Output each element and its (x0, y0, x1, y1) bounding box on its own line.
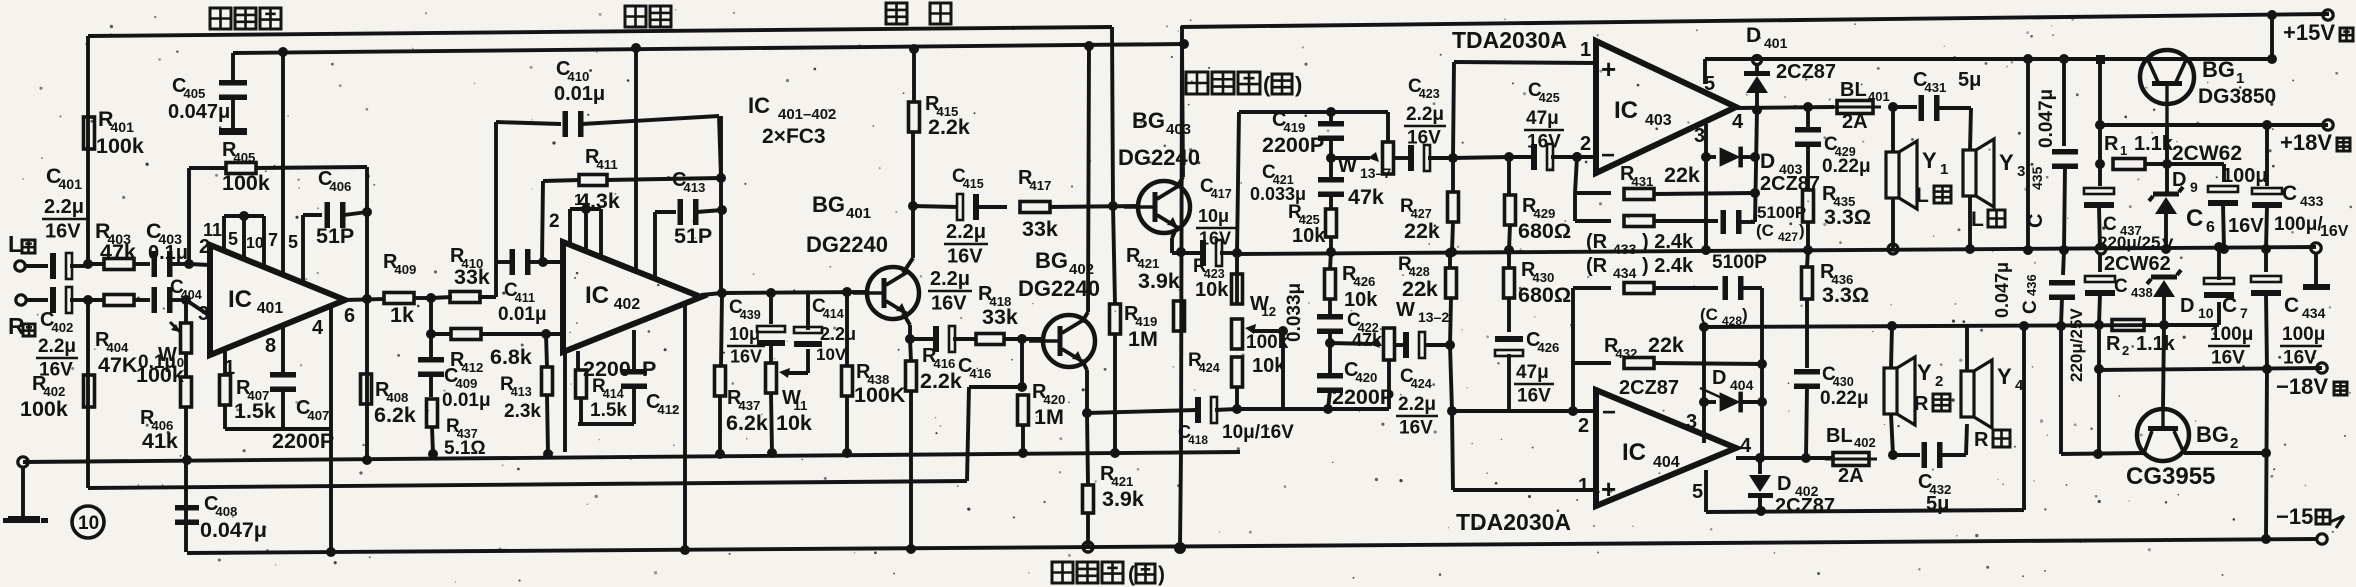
wire C6 link (2167, 162, 2224, 166)
svg-text:414: 414 (603, 387, 624, 401)
label xiangjiaqi you bottom (1052, 562, 1073, 583)
svg-text:3.9k: 3.9k (1102, 487, 1144, 511)
wire bottom rail (187, 539, 2316, 553)
svg-text:Y: Y (1997, 364, 2012, 389)
resistor R433 (1624, 216, 1654, 227)
svg-text:16V: 16V (1517, 385, 1551, 406)
wire BG1 base down (2165, 125, 2169, 192)
wire box edge to bottom (1180, 452, 1181, 548)
svg-text:2200P: 2200P (1332, 385, 1394, 409)
transistor BG2 (2137, 409, 2189, 461)
svg-text:R: R (2106, 333, 2121, 355)
svg-text:D: D (1746, 24, 1761, 47)
wire C435 bottom (2064, 167, 2065, 250)
node C411 out (538, 257, 548, 267)
diode D402 (1758, 458, 1762, 474)
terminal +15V (2267, 10, 2277, 20)
svg-text:401: 401 (257, 300, 284, 317)
wire lower box right (2022, 326, 2026, 510)
terminal -15 (2317, 534, 2327, 544)
svg-text:417: 417 (1029, 178, 1051, 193)
capacitor C436 (2049, 280, 2075, 286)
node R435 bottom (1803, 245, 1813, 255)
svg-text:): ) (1158, 563, 1165, 586)
svg-text:BG: BG (1035, 248, 1068, 273)
wire D401 vertical (1755, 110, 1757, 222)
svg-text:1.1k: 1.1k (2134, 133, 2174, 155)
wire pin4 drop (329, 306, 333, 552)
node R421 lower bottom (1083, 542, 1093, 552)
resistor R419 (1110, 304, 1121, 334)
resistor R418 (976, 334, 1004, 345)
resistor R421 lower (1087, 413, 1088, 484)
wire C410 right drop (719, 116, 721, 178)
svg-text:16V: 16V (730, 347, 762, 367)
capacitor C406 (325, 202, 331, 228)
speaker Y2 (1884, 368, 1897, 414)
capacitor C407 line (281, 325, 285, 374)
svg-text:C: C (2284, 294, 2299, 317)
svg-text:433: 433 (2300, 193, 2324, 209)
capacitor C402 (50, 287, 56, 313)
capacitor C7 (2204, 278, 2234, 284)
capacitor C429 (1806, 107, 1810, 130)
speaker Y1 (1886, 152, 1899, 198)
node pin2 (1572, 152, 1582, 162)
wire Y1 bottom (1891, 198, 1895, 249)
resistor R2 (2112, 320, 2144, 331)
svg-text:438: 438 (2131, 285, 2153, 300)
wire R405 left drop (187, 168, 191, 264)
svg-text:411: 411 (596, 157, 617, 172)
svg-text:100k: 100k (96, 134, 144, 158)
node mixer L in (1232, 248, 1242, 258)
resistor R431 (1624, 189, 1654, 200)
svg-text:W: W (1396, 299, 1415, 321)
wire IC404 output (1736, 456, 1833, 460)
svg-text:100μ: 100μ (2210, 324, 2253, 345)
wire node to R429 (1453, 157, 1509, 158)
svg-text:436: 436 (2024, 274, 2039, 296)
svg-text:100k: 100k (222, 171, 270, 195)
resistor R405 (189, 166, 227, 170)
node IC403 out (1752, 105, 1762, 115)
svg-text:IC: IC (228, 286, 252, 313)
resistor R414 (576, 370, 587, 398)
svg-text:5: 5 (288, 232, 298, 252)
wire second rail (233, 44, 1184, 53)
svg-text:3.9k: 3.9k (1138, 269, 1180, 293)
svg-text:L: L (1971, 208, 1984, 231)
svg-text:1.5k: 1.5k (234, 399, 276, 423)
node railB junction (278, 47, 288, 57)
svg-text:13–2: 13–2 (1418, 309, 1449, 325)
node R409-R410 (426, 293, 436, 303)
svg-text:0.01μ: 0.01μ (498, 304, 547, 325)
svg-text:220μ/25V: 220μ/25V (2067, 308, 2086, 382)
svg-text:10k: 10k (1195, 279, 1229, 301)
capacitor C6 (2208, 186, 2238, 192)
wire Y2 top (1891, 326, 1892, 368)
node emitter crossing (1176, 247, 1186, 257)
svg-text:10: 10 (2198, 305, 2214, 321)
resistor R407 (220, 375, 231, 405)
svg-text:R: R (1974, 429, 1989, 451)
node BG402 emitter junction (1082, 408, 1092, 418)
wire pin3 ground drop (1704, 124, 1708, 250)
speaker Y3 (1963, 150, 1976, 196)
wire Y4 bottom (1966, 424, 1967, 455)
wire out to BG401 base (722, 292, 867, 293)
fuse BL402 (1833, 453, 1869, 466)
svg-text:) 2.4k: ) 2.4k (1642, 231, 1694, 253)
capacitor C414 (794, 327, 822, 333)
terminal mid ground (2096, 244, 2106, 254)
capacitor C413 (678, 199, 684, 225)
pot W13-2 (1384, 328, 1395, 360)
node C419-C421 (1326, 153, 1336, 163)
svg-text:C: C (2282, 182, 2297, 205)
node -18 dots (2094, 364, 2104, 374)
capacitor C428 (1723, 276, 1729, 300)
pot W10 (181, 323, 192, 353)
svg-text:L: L (1916, 184, 1929, 207)
svg-text:16V: 16V (2283, 347, 2317, 368)
svg-text:415: 415 (963, 177, 984, 191)
svg-text:L: L (8, 231, 22, 257)
resistor R438 (845, 292, 849, 366)
svg-text:2.2k: 2.2k (928, 115, 970, 139)
svg-text:1: 1 (1940, 161, 1948, 178)
node rail250 dots (2161, 244, 2171, 254)
svg-text:9: 9 (2190, 179, 2198, 195)
node BG401 emitter (905, 334, 915, 344)
svg-text:2CW62: 2CW62 (2104, 253, 2171, 275)
capacitor C419 (1329, 112, 1333, 122)
svg-text:0.033μ: 0.033μ (1284, 283, 1305, 342)
resistor R413 (546, 334, 547, 367)
resistor R402 line (86, 300, 90, 488)
zener D10 (2151, 275, 2177, 280)
svg-text:16V: 16V (1199, 229, 1231, 249)
svg-text:100K: 100K (854, 383, 906, 407)
svg-text:47μ: 47μ (1526, 108, 1559, 129)
node C429 top (1803, 102, 1813, 112)
svg-text:1: 1 (2120, 143, 2127, 158)
svg-text:10: 10 (78, 513, 99, 534)
resistor R401 vertical line (86, 36, 90, 264)
svg-text:424: 424 (1411, 377, 1432, 391)
op-amp IC404 (1596, 390, 1736, 506)
svg-text:100k: 100k (20, 397, 68, 421)
svg-text:−: − (1602, 399, 1616, 426)
svg-text:5μ: 5μ (1926, 493, 1949, 515)
svg-text:2: 2 (2122, 343, 2129, 358)
svg-text:2: 2 (1580, 133, 1591, 155)
wire chassis rail (23, 452, 1240, 462)
capacitor C439 (757, 326, 785, 332)
transistor BG402 (1043, 315, 1095, 367)
capacitor C433 (2265, 125, 2269, 186)
svg-text:3.3Ω: 3.3Ω (1824, 205, 1871, 229)
svg-text:6.8k: 6.8k (490, 345, 532, 369)
svg-text:404: 404 (1730, 377, 1754, 393)
svg-text:5.1Ω: 5.1Ω (444, 438, 486, 459)
svg-text:33k: 33k (1022, 217, 1058, 241)
node box edge chassis (1110, 448, 1120, 458)
svg-text:7: 7 (2240, 305, 2248, 321)
resistor R423 (1235, 253, 1239, 304)
wire lower feedback rail (88, 481, 967, 488)
pot W11 (769, 344, 773, 362)
wire BG402 collector (1082, 312, 1088, 322)
svg-text:Y: Y (1917, 360, 1932, 385)
svg-text:0.047μ: 0.047μ (200, 518, 267, 542)
svg-text:BG: BG (2202, 57, 2235, 82)
svg-text:D: D (1760, 150, 1775, 173)
svg-text:16V: 16V (2211, 347, 2245, 368)
diode D404 (1704, 400, 1716, 404)
svg-text:1k: 1k (390, 303, 414, 327)
capacitor C434 (2264, 247, 2268, 272)
svg-text:0.01μ: 0.01μ (442, 390, 491, 411)
node R429 top (1504, 152, 1514, 162)
capacitor C423 (1394, 156, 1408, 160)
svg-text:C: C (2186, 205, 2203, 232)
resistor R410 (431, 297, 452, 298)
svg-text:DG3850: DG3850 (2198, 85, 2276, 108)
svg-text:407: 407 (307, 408, 329, 423)
svg-text:D: D (1712, 367, 1726, 389)
svg-text:401: 401 (846, 205, 871, 222)
svg-text:2: 2 (1578, 415, 1589, 437)
svg-text:(R: (R (1586, 255, 1608, 277)
wire wiper W13-7 (1331, 156, 1370, 160)
node IC404 out (1755, 453, 1765, 463)
resistor R429 (1507, 157, 1511, 194)
capacitor C417 (1200, 240, 1206, 266)
svg-text:3: 3 (1686, 411, 1697, 433)
wire W11 wiper (788, 371, 808, 375)
capacitor C407 (270, 372, 296, 378)
svg-text:2200P: 2200P (272, 429, 334, 453)
svg-text:10k: 10k (776, 411, 812, 435)
wire C437 line (2098, 59, 2102, 125)
capacitor C405 top lead (231, 53, 235, 80)
node R438 top (842, 287, 852, 297)
svg-text:1: 1 (574, 192, 583, 209)
node R432 right (1757, 359, 1767, 369)
capacitor C418 (1160, 410, 1196, 411)
svg-text:0.22μ: 0.22μ (1820, 388, 1869, 409)
node D404 cathode (1757, 397, 1767, 407)
capacitor C426 (1495, 336, 1523, 342)
svg-text:1: 1 (1580, 39, 1591, 61)
wire out to R409 (345, 299, 385, 300)
pot W10 line (184, 300, 188, 323)
svg-text:5100P: 5100P (1757, 203, 1806, 222)
svg-text:413: 413 (683, 180, 705, 195)
wire BG403 collector (1177, 177, 1183, 187)
diode D403 (1706, 155, 1716, 159)
wire R414-C412 bus (578, 422, 634, 426)
svg-text:12: 12 (1261, 304, 1276, 319)
capacitor C430 (1794, 369, 1820, 375)
resistor R408 line (365, 299, 369, 460)
transistor BG401 (867, 267, 919, 319)
wire -18V rail (2095, 368, 2322, 370)
wire Y2 bottom (1891, 414, 1893, 455)
wire base feedback (969, 385, 1022, 389)
svg-text:100μ: 100μ (2282, 324, 2325, 345)
wire IC404 pin5 stub (1704, 470, 1708, 512)
svg-text:IC: IC (1614, 97, 1638, 124)
svg-text:430: 430 (1833, 375, 1854, 389)
capacitor C405 (219, 80, 247, 86)
svg-text:10: 10 (246, 235, 264, 252)
svg-text:432: 432 (1615, 346, 1637, 361)
node BG402 base (1017, 334, 1027, 344)
wire IC403 output (1736, 107, 1834, 108)
svg-text:4: 4 (1740, 435, 1752, 457)
wire D404 to output (1760, 364, 1764, 458)
svg-text:100μ/: 100μ/ (2274, 214, 2323, 235)
svg-text:2×FC3: 2×FC3 (762, 125, 826, 148)
svg-text:TDA2030A: TDA2030A (1452, 27, 1567, 53)
node rail B end (1179, 39, 1189, 49)
svg-text:2.2μ: 2.2μ (930, 268, 970, 290)
svg-text:C: C (2222, 294, 2237, 317)
svg-text:16V: 16V (947, 245, 983, 267)
wire +15V rail (1181, 14, 2329, 27)
node L junction (83, 259, 93, 269)
svg-text:2.2μ: 2.2μ (1398, 394, 1436, 415)
resistor R436 (1807, 250, 1808, 267)
node Y1 bottom (1888, 244, 1898, 254)
wire IC402 pin7 drop (634, 48, 638, 270)
svg-text:434: 434 (1613, 265, 1637, 281)
capacitor C412 (621, 369, 647, 375)
wire IC402 out vertical (719, 116, 723, 293)
label yanshi (625, 6, 646, 27)
capacitor C439 drop (766, 288, 776, 298)
svg-text:DG2240: DG2240 (806, 232, 888, 257)
capacitor C438 (2098, 253, 2102, 272)
svg-text:D: D (1777, 473, 1791, 495)
svg-text:IC: IC (1622, 439, 1646, 466)
node D404 anode (1699, 397, 1709, 407)
svg-text:3.3Ω: 3.3Ω (1822, 283, 1869, 307)
zener D9 (2153, 192, 2179, 197)
svg-text:100k: 100k (136, 363, 184, 387)
wire wiper W13-2 (1330, 343, 1372, 344)
resistor R420 (1018, 395, 1029, 425)
svg-text:5: 5 (1692, 481, 1703, 503)
svg-text:403: 403 (1645, 112, 1672, 129)
node IC401 out (362, 294, 372, 304)
wire R433 wire (1573, 193, 1577, 221)
box left edge (1181, 26, 1182, 452)
capacitor C416 (910, 337, 934, 341)
capacitor C410 (496, 122, 561, 124)
wire top rail (88, 27, 1112, 36)
resistor R417 (1020, 202, 1050, 213)
wire lower box bottom (1706, 510, 2024, 512)
svg-text:1M: 1M (1128, 327, 1158, 351)
svg-text:47μ: 47μ (1516, 362, 1549, 383)
svg-text:C: C (2114, 276, 2128, 297)
svg-text:2.2μ: 2.2μ (1406, 104, 1444, 125)
svg-text:0.1μ: 0.1μ (148, 242, 188, 264)
svg-text:406: 406 (329, 179, 351, 194)
svg-text:11: 11 (203, 220, 222, 240)
svg-text:16V: 16V (1527, 131, 1561, 152)
svg-text:412: 412 (461, 360, 483, 375)
svg-text:5μ: 5μ (1958, 69, 1981, 91)
resistor R428 (1448, 253, 1452, 267)
svg-text:51P: 51P (674, 224, 712, 248)
svg-text:−18V: −18V (2276, 374, 2328, 399)
wire +18V rail (2100, 123, 2328, 127)
svg-text:(R: (R (1586, 231, 1608, 253)
wire D401 top rail (1705, 57, 2272, 61)
svg-text:2: 2 (2230, 435, 2238, 452)
capacitor C411 (510, 249, 516, 275)
resistor R404 (88, 298, 105, 302)
svg-text:413: 413 (511, 385, 532, 399)
svg-text:4: 4 (2015, 377, 2024, 394)
pot W13-7 (1386, 112, 1390, 142)
svg-text:423: 423 (1419, 87, 1440, 101)
node R406 chassis (182, 455, 192, 465)
svg-text:10k: 10k (1344, 289, 1378, 311)
wire W12 wiper (1252, 329, 1283, 333)
node D403 anode (1701, 152, 1711, 162)
svg-text:409: 409 (394, 262, 416, 277)
svg-text:408: 408 (215, 504, 237, 519)
svg-text:401: 401 (58, 177, 82, 193)
terminal L input (15, 261, 25, 271)
pot W12 (1232, 319, 1243, 349)
node C430 bottom (1801, 453, 1811, 463)
wire emitter to C418 (1087, 411, 1160, 413)
svg-text:22k: 22k (1402, 277, 1438, 301)
svg-text:2.2μ: 2.2μ (44, 196, 84, 218)
svg-text:−15: −15 (2276, 504, 2313, 529)
node R417 base junction (1108, 201, 1118, 211)
wire upper box right (2026, 59, 2030, 250)
svg-text:426: 426 (1537, 340, 1559, 355)
wire pin7 drop (281, 52, 285, 275)
wire BG401 collector (903, 258, 913, 273)
svg-text:10V: 10V (816, 345, 847, 364)
ground bar right (2303, 284, 2330, 290)
wire R407-C407 bus (225, 427, 331, 431)
svg-text:3: 3 (2017, 163, 2025, 180)
wire BG401 emitter (903, 313, 910, 325)
svg-text:10μ/16V: 10μ/16V (1222, 422, 1294, 443)
svg-text:47K: 47K (98, 353, 138, 377)
svg-text:(C: (C (1756, 221, 1774, 240)
svg-text:6: 6 (2206, 219, 2215, 236)
svg-text:0.047μ: 0.047μ (1992, 262, 2012, 318)
wire Y1 top (1891, 107, 1895, 152)
capacitor C420 (1317, 373, 1343, 379)
resistor R437a 5.1 (429, 375, 433, 397)
svg-text:2.2μ: 2.2μ (38, 336, 76, 357)
svg-text:16V: 16V (2320, 223, 2349, 240)
op-amp IC403 (1596, 41, 1736, 173)
